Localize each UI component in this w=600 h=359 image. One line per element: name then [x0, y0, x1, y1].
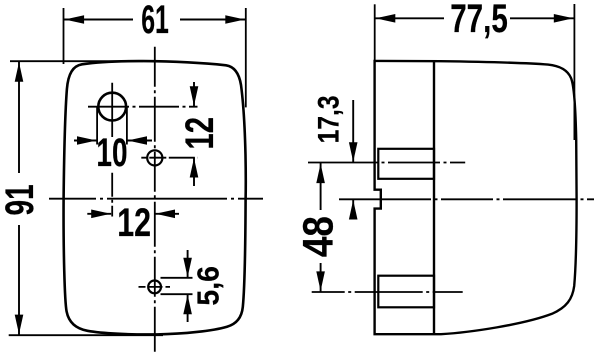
dim 5,6 ext line top	[161, 277, 193, 279]
dim 61 arrow right	[225, 15, 245, 24]
lower tab centerline	[312, 291, 463, 293]
dim 17,3 shaft bottom	[352, 200, 354, 217]
dim 61 ext line right	[245, 8, 247, 107]
lamp body outline (front view)	[64, 61, 246, 334]
hole P1 (d10) outer circle	[98, 93, 126, 121]
dim 91 ext line bottom	[9, 334, 163, 336]
svg-text:17,3: 17,3	[311, 95, 345, 143]
dim 91 arrow bottom	[15, 315, 24, 335]
dim 61 ext line left	[63, 8, 65, 64]
svg-text:77,5: 77,5	[450, 0, 508, 41]
svg-text:12: 12	[117, 200, 151, 245]
hole P1 horizontal centerline	[88, 106, 198, 108]
dim 12 vertical shaft bottom	[193, 157, 195, 186]
hole P1 vertical centerline lower	[111, 173, 113, 217]
dim 5,6 arrow bottom	[183, 295, 192, 315]
dim 17,3 shaft top	[352, 100, 354, 162]
upper tab	[378, 149, 434, 179]
front view horizontal axis	[49, 198, 263, 200]
dim 48 arrow top	[316, 164, 325, 184]
dim 77,5 ext line left	[374, 4, 376, 61]
dim 77,5 arrow right	[554, 14, 574, 23]
dim 17,3 arrow top	[349, 142, 358, 162]
dim 5,6 arrow top	[183, 258, 192, 278]
hole P2 (mid small) circle	[147, 150, 162, 165]
dim 12 horizontal arrow left	[91, 210, 111, 219]
hole P3 horizontal centerline	[139, 286, 171, 288]
dim 17,3 arrow bottom	[349, 200, 358, 220]
dim 12 horizontal arrow right	[156, 210, 176, 219]
dim 5,6 shaft top	[187, 250, 189, 278]
lower tab	[378, 276, 434, 308]
dim 48 line bottom	[320, 263, 322, 292]
upper tab centerline	[308, 162, 465, 164]
dim 12 horizontal shaft right	[155, 213, 179, 215]
dim 12 horizontal shaft left	[87, 213, 111, 215]
dim 12 vertical arrow top	[190, 86, 199, 106]
svg-text:61: 61	[141, 0, 169, 43]
svg-text:5,6: 5,6	[191, 266, 225, 306]
dim 10 shaft left	[74, 140, 97, 142]
svg-text:10: 10	[96, 131, 127, 175]
svg-text:91: 91	[0, 184, 42, 215]
dim 91 ext line top	[10, 60, 143, 62]
dim 61 line	[64, 19, 134, 21]
hole P1 vertical centerline upper	[111, 83, 113, 137]
dim 48 line top	[320, 163, 322, 211]
svg-text:48: 48	[295, 216, 342, 257]
dim 48 arrow bottom	[316, 271, 325, 291]
dim 12 vertical arrow bottom	[190, 158, 199, 178]
dim 77,5 ext line right	[573, 4, 575, 140]
dim 12 vertical shaft top	[193, 82, 195, 106]
dim 91 arrow top	[15, 62, 24, 82]
side view front face line	[433, 61, 435, 334]
hole P2 horizontal centerline	[141, 157, 197, 159]
dim 91 line	[18, 61, 20, 173]
dim 5,6 ext line bottom	[161, 293, 193, 295]
dim 77,5 arrow left	[376, 14, 396, 23]
hole P3 (bottom small) circle	[148, 281, 161, 294]
dim 10 ext line right	[126, 107, 128, 145]
svg-text:12: 12	[178, 117, 223, 149]
dim 5,6 shaft bottom	[187, 294, 189, 322]
dim 61 arrow left	[65, 15, 85, 24]
dim 10 arrow right	[128, 136, 148, 145]
front view vertical axis	[154, 47, 156, 353]
dim 10 arrow left	[77, 136, 97, 145]
side view body outline	[375, 61, 577, 334]
dim 10 ext line left	[96, 107, 98, 145]
side view axis	[339, 198, 594, 200]
dim 10 shaft right	[127, 140, 152, 142]
dim 77,5 line	[375, 17, 444, 19]
